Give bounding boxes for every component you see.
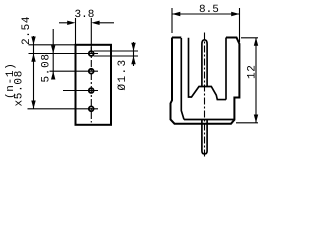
- svg-text:2.54: 2.54: [21, 16, 33, 45]
- svg-text:3.8: 3.8: [74, 9, 94, 21]
- svg-text:(n-1): (n-1): [5, 62, 17, 99]
- svg-text:Ø1.3: Ø1.3: [117, 58, 129, 90]
- svg-text:5.08: 5.08: [41, 53, 53, 82]
- svg-text:12: 12: [247, 64, 259, 79]
- svg-text:8.5: 8.5: [199, 4, 219, 16]
